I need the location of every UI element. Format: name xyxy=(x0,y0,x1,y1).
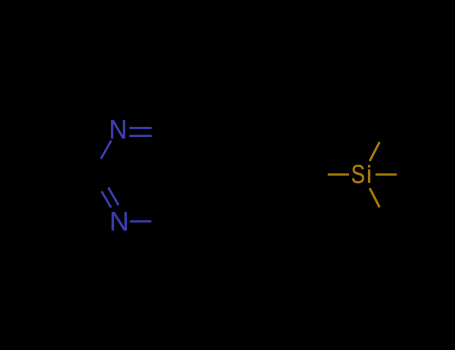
bond Cb-Si (gold half) xyxy=(328,173,349,175)
bond N1=C6 inner double line (carbon half, black) xyxy=(152,135,166,137)
bond Si-CH3 upper right (gold half) xyxy=(370,142,380,161)
bond C2=N3 main line (blue half) xyxy=(102,191,111,207)
svg-text:N: N xyxy=(109,114,127,145)
triple bond Ca#Cb (black, invisible) xyxy=(254,173,308,175)
bond N1=C6 inner double line (blue half) xyxy=(129,135,151,137)
bond N3-C4 (blue half) xyxy=(130,220,151,222)
bond C2=N3 main line (carbon half, black) xyxy=(92,175,102,192)
svg-text:N: N xyxy=(110,207,130,237)
atom label Si : letter i stem xyxy=(368,169,370,182)
bond N3-C4 (carbon half, black) xyxy=(151,220,172,222)
bond Si-CH3 right (carbon half, black) xyxy=(397,173,416,175)
bond N1=C6 main line (carbon half, black) xyxy=(152,127,173,129)
methyl bond on C2 (black, invisible) xyxy=(38,173,92,175)
bond N1-C2 (carbon half, black) xyxy=(92,159,101,175)
bond N1-C2 (blue half) xyxy=(101,141,111,159)
bond C5-C6 (black, invisible) xyxy=(173,128,200,175)
bond C2=N3 inner double line (blue half) xyxy=(108,188,118,206)
bond Cb-Si (carbon half, black) xyxy=(308,173,328,175)
bond Si-CH3 upper right (carbon half, black) xyxy=(380,128,389,142)
bond Si-CH3 right (gold half) xyxy=(376,173,397,175)
svg-text:S: S xyxy=(351,160,365,189)
bond C4-C5 (black, invisible) xyxy=(173,175,200,222)
pyrimidine ring: bond N1=C6 main line (blue half) xyxy=(129,127,151,129)
atom label Si : letter i dot xyxy=(368,165,370,168)
bond Si-CH3 lower right (gold half) xyxy=(370,188,380,207)
bond C5-Ca alkyne chain (black, invisible) xyxy=(200,173,254,175)
bond Si-CH3 lower right (carbon half, black) xyxy=(380,207,389,221)
bond C2=N3 inner double line (carbon half, black) xyxy=(101,175,108,188)
